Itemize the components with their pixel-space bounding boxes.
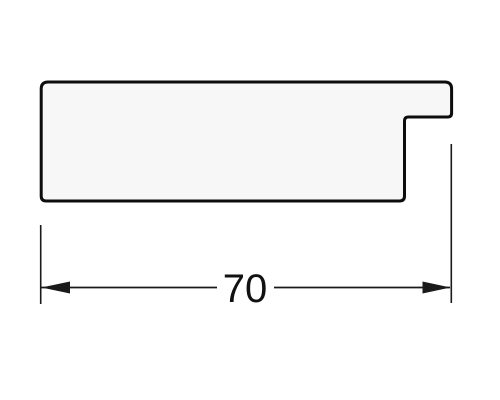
right extension line (450, 144, 452, 303)
dimension line left segment (42, 287, 218, 289)
frame profile cross-section outline (41, 82, 451, 201)
svg-text:70: 70 (223, 267, 268, 311)
right arrowhead (423, 282, 451, 294)
dimension line right segment (274, 287, 450, 289)
left extension line (40, 225, 42, 304)
left arrowhead (42, 282, 71, 294)
